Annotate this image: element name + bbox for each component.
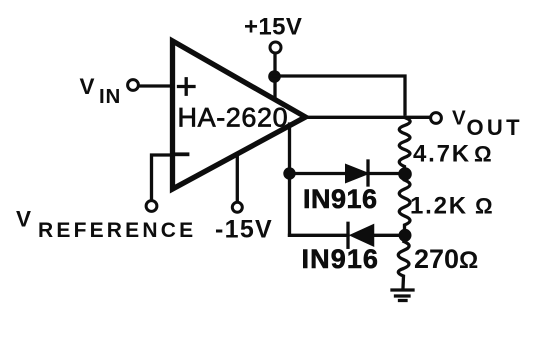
svg-text:4.7K: 4.7K	[413, 141, 471, 168]
minus input symbol	[176, 152, 188, 156]
svg-text:Ω: Ω	[475, 194, 493, 219]
plus input symbol	[179, 79, 195, 94]
wire VIN to + input	[140, 84, 172, 87]
diode D2 cathode bar	[346, 223, 349, 247]
resistor R1 4.7K	[399, 118, 410, 170]
wire diode D1 row	[290, 172, 406, 175]
wire top rail over to output node	[274, 76, 405, 114]
svg-text:1.2K: 1.2K	[410, 193, 468, 220]
junction dot R1/R2	[398, 167, 412, 181]
svg-text:Ω: Ω	[459, 247, 478, 274]
node VOUT terminal circle	[431, 113, 442, 124]
ground symbol	[392, 290, 413, 301]
resistor R3 270	[398, 242, 409, 289]
node -15V terminal circle	[232, 202, 242, 212]
wire +15V down to op-amp top edge	[273, 55, 276, 100]
wire -15V from op-amp bottom edge	[236, 155, 239, 201]
svg-text:REFERENCE: REFERENCE	[38, 219, 196, 242]
junction dot on +15V wire	[268, 70, 281, 83]
svg-text:IN916: IN916	[303, 184, 378, 214]
svg-text:-15V: -15V	[215, 216, 273, 244]
op-amp U1 HA-2620 triangle	[173, 41, 306, 189]
node VIN terminal circle	[128, 80, 139, 91]
node +15V terminal circle	[270, 42, 281, 53]
svg-text:V: V	[452, 107, 466, 130]
wire VREFERENCE to - input	[152, 155, 173, 200]
diode D2 IN916 (points left)	[351, 225, 374, 246]
svg-text:IN: IN	[99, 85, 121, 108]
wire diode D2 row	[290, 234, 406, 237]
resistor R2 1.2K	[399, 180, 410, 229]
junction dot R2/R3	[399, 229, 412, 242]
svg-text:OUT: OUT	[467, 115, 523, 140]
svg-text:270: 270	[414, 244, 459, 274]
wire output to VOUT	[306, 116, 430, 119]
svg-text:+15V: +15V	[244, 14, 302, 41]
diode D1 IN916 (anode left, points right)	[346, 165, 368, 182]
node VREFERENCE terminal circle	[146, 201, 157, 212]
svg-text:V: V	[80, 74, 95, 99]
svg-text:Ω: Ω	[474, 142, 492, 167]
svg-text:HA-2620: HA-2620	[178, 103, 289, 133]
svg-text:IN916: IN916	[302, 244, 380, 274]
svg-text:V: V	[16, 207, 31, 232]
diode D1 cathode bar	[366, 161, 369, 185]
wire feedback vertical from op-amp lower edge	[288, 124, 291, 235]
junction node A dot	[283, 167, 295, 179]
